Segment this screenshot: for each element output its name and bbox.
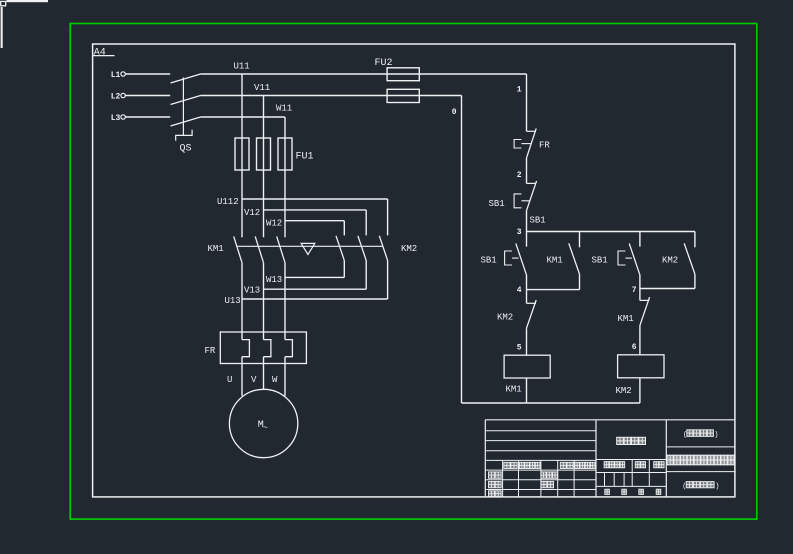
svg-text:SB1: SB1: [530, 216, 546, 226]
wire W11 vertical: [284, 117, 286, 237]
fuse FU1 element 3: [278, 138, 292, 170]
pushbutton SB1 start forward: [526, 232, 528, 247]
svg-text:5: 5: [517, 344, 522, 353]
wire node1 drop: [526, 74, 528, 131]
thermal relay FR box: [220, 332, 306, 364]
FR heater element 3: [285, 340, 292, 357]
motor M circle: [229, 389, 297, 457]
tb drawing title: [667, 455, 673, 465]
wire U11 vertical: [241, 74, 243, 237]
svg-text:V11: V11: [254, 83, 270, 93]
svg-text:KM1: KM1: [547, 256, 563, 266]
QS blade phase 2: [171, 96, 201, 105]
thermal contact FR: [527, 130, 537, 132]
svg-text:KM2: KM2: [401, 244, 417, 254]
svg-text:U112: U112: [217, 197, 239, 207]
wire U112 row: [242, 198, 388, 200]
svg-text:L1: L1: [111, 71, 121, 80]
QS linkage bar: [182, 78, 184, 136]
svg-text:KM1: KM1: [208, 244, 224, 254]
contact KM2 interlock: [526, 290, 528, 304]
contact KM1 auxiliary: [579, 232, 581, 248]
contactor KM2 main contact 2: [358, 236, 366, 261]
wire FR to SB1: [526, 158, 528, 184]
wire node3 row: [527, 231, 695, 233]
fuse FU1 element 2: [257, 138, 271, 170]
tb sheet count row: [605, 489, 610, 494]
pushbutton SB1 stop: [527, 182, 537, 184]
wire SB1 to node3: [526, 211, 528, 232]
svg-text:6: 6: [632, 343, 637, 352]
coil KM1: [504, 355, 550, 378]
svg-text:A4: A4: [94, 47, 106, 58]
linkage bar KM1-KM2: [237, 245, 382, 247]
contactor KM2 main contact 1: [336, 236, 344, 261]
wire V11 vertical: [263, 96, 265, 238]
svg-text:U13: U13: [225, 296, 241, 306]
svg-text:V: V: [251, 375, 257, 385]
contactor KM2 main contact 3: [379, 236, 387, 261]
svg-text:V13: V13: [244, 286, 260, 296]
inner drawing frame: [93, 44, 735, 497]
fuse FU2 element 2: [387, 89, 419, 102]
FR heater element 2: [264, 340, 271, 357]
svg-text:L3: L3: [111, 114, 121, 123]
wire FR to motor 3: [284, 357, 286, 396]
contactor KM1 main contact 2: [255, 236, 263, 262]
svg-text:QS: QS: [180, 144, 192, 155]
QS blade phase 3: [171, 117, 201, 126]
contactor KM1 main contact 3: [277, 236, 285, 262]
svg-text:1: 1: [517, 86, 522, 95]
svg-text:KM1: KM1: [618, 314, 634, 324]
svg-text:W11: W11: [276, 103, 292, 113]
svg-text:2: 2: [517, 171, 522, 180]
wire U13 row: [242, 298, 388, 300]
svg-text:L2: L2: [111, 92, 121, 101]
svg-text:FR: FR: [539, 140, 550, 150]
coil KM2: [618, 355, 664, 378]
pushbutton SB1 start reverse: [639, 232, 641, 247]
wire bottom rail: [462, 402, 640, 404]
svg-text:): ): [715, 483, 719, 491]
contact KM1 interlock: [639, 289, 641, 301]
svg-text:FU1: FU1: [296, 151, 314, 162]
svg-text:7: 7: [632, 286, 637, 295]
wire W12 row: [285, 220, 344, 222]
contact KM2 auxiliary: [694, 232, 696, 248]
tb material mark text: [617, 437, 624, 444]
svg-text:0: 0: [452, 108, 457, 117]
FR heater element 1: [242, 340, 249, 357]
tb stage mark / mass / scale: [604, 462, 609, 468]
svg-text:KM2: KM2: [616, 386, 632, 396]
tb header row texts: [504, 462, 510, 468]
svg-text:KM2: KM2: [497, 313, 513, 323]
title block grid: [485, 419, 735, 421]
wire U11 row: [201, 73, 527, 75]
svg-text:SB1: SB1: [481, 256, 497, 266]
fuse FU2 element 1: [387, 68, 419, 81]
svg-text:KM1: KM1: [506, 385, 522, 395]
wire V12 row: [264, 209, 367, 211]
wire FR to motor 1: [241, 357, 243, 396]
svg-text:3: 3: [517, 228, 522, 237]
linkage triangle: [301, 243, 315, 254]
svg-text:KM2: KM2: [662, 256, 678, 266]
svg-text:SB1: SB1: [592, 256, 608, 266]
wire left rail: [461, 96, 463, 404]
UCS icon: [1, 1, 6, 5]
svg-text:): ): [714, 432, 718, 440]
svg-text:W13: W13: [266, 275, 282, 285]
wire node7 row: [640, 288, 695, 290]
svg-text:W12: W12: [266, 218, 282, 228]
svg-text:U11: U11: [234, 62, 250, 72]
svg-text:SB1: SB1: [489, 199, 505, 209]
tb row labels design/check/process: [489, 472, 495, 478]
wire node4 row: [527, 289, 580, 291]
wire V11 row: [201, 95, 462, 97]
wire W13 row: [285, 276, 344, 278]
green paper border: [70, 24, 757, 520]
svg-text:FR: FR: [205, 346, 216, 356]
QS handle: [176, 130, 192, 141]
svg-text:4: 4: [517, 286, 522, 295]
wire FR to motor 2: [263, 357, 265, 389]
wire V13 row: [264, 288, 367, 290]
svg-text:U: U: [227, 375, 232, 385]
svg-text:W: W: [272, 375, 278, 385]
contactor KM1 main contact 1: [234, 236, 242, 262]
fuse FU1 element 1: [235, 138, 249, 170]
svg-text:~: ~: [263, 424, 268, 433]
QS blade phase 1: [171, 74, 201, 83]
wire KM1 coil to rail: [526, 378, 528, 403]
wire KM2 coil to rail: [639, 378, 641, 403]
svg-text:V12: V12: [244, 208, 260, 218]
wire W11 row: [201, 116, 286, 118]
